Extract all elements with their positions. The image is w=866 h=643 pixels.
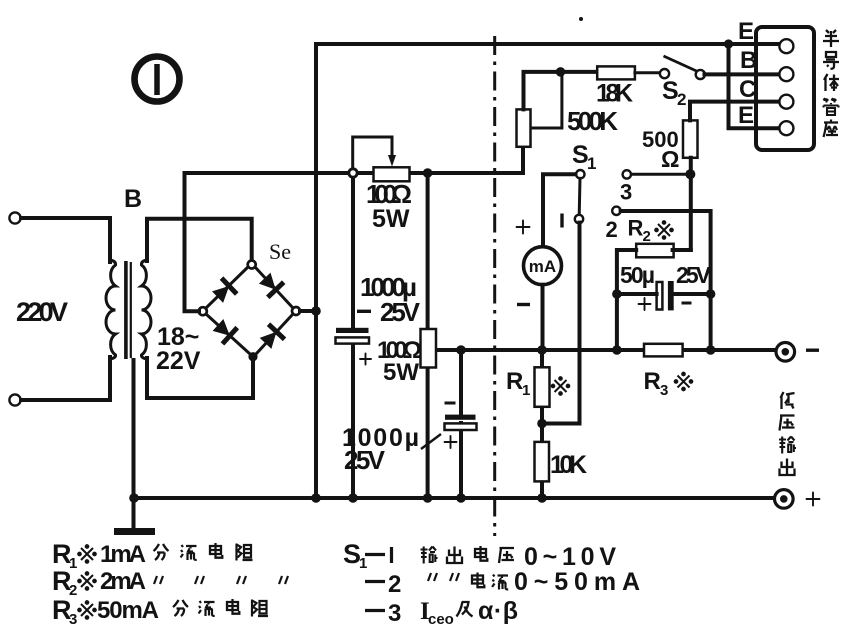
diode D2 top-right arm [257, 271, 284, 298]
potentiometer 100ohm 5W vertical [421, 329, 437, 368]
junction ground / bottom rail [129, 493, 139, 503]
output terminal minus [776, 343, 795, 362]
switch S1 common contact [576, 170, 584, 178]
socket wire E loop [729, 44, 780, 128]
junction cap50 right [706, 289, 716, 299]
label S2 [662, 77, 686, 109]
label 100ohm 5W lower [377, 337, 422, 386]
label C2 minus [445, 402, 456, 405]
rheostat wiper arm [353, 137, 392, 169]
resistor R3 [644, 344, 683, 357]
wire primary bottom [21, 357, 110, 400]
label output minus [806, 349, 819, 352]
wire cap50 left [617, 292, 657, 296]
svg-text:1: 1 [359, 555, 367, 572]
label R1 [506, 368, 530, 399]
divider dash-dot line [493, 36, 496, 536]
junction rheostat right [423, 168, 433, 178]
svg-text:2: 2 [677, 90, 686, 109]
wire bridge left vertex to negative bus [185, 173, 200, 311]
junction meter minus rail [537, 345, 547, 355]
wire contact1 down to R1 bottom [542, 223, 580, 424]
wire negative bus y173 [185, 147, 524, 173]
legend R1 line [52, 539, 253, 572]
switch S1 contact 1 [575, 215, 583, 223]
transformer core [126, 261, 131, 359]
svg-text:1mA: 1mA [100, 541, 146, 568]
svg-text:3: 3 [388, 600, 401, 627]
bridge top vertex node [248, 261, 256, 269]
diode D1 top-left arm [210, 278, 237, 305]
switch S2 lever [664, 56, 697, 71]
socket terminal C [779, 95, 793, 109]
svg-text:5W: 5W [372, 205, 410, 233]
label cap50 minus [682, 302, 692, 305]
transformer B secondary winding [141, 260, 151, 359]
junction cap50 left [612, 289, 622, 299]
svg-text:Se: Se [269, 239, 291, 264]
socket box [756, 27, 814, 150]
wire cap50 right [674, 292, 711, 296]
wiper arrowhead [388, 155, 396, 167]
svg-text:B: B [740, 47, 757, 74]
svg-text:2: 2 [643, 228, 651, 245]
resistor 10K [535, 442, 550, 482]
wire S2 to socket B [705, 72, 780, 76]
resistor R2 [636, 244, 673, 257]
switch S2 right contact [696, 70, 705, 79]
rheostat R 100ohm 5W horizontal [374, 167, 410, 181]
label C1 minus 25V [357, 297, 421, 327]
bridge right vertex node [292, 307, 300, 315]
junction R1 bottom [537, 419, 547, 429]
resistor 18K [597, 66, 635, 79]
input terminal bottom-left [9, 394, 20, 405]
junction R2 left minus rail [612, 345, 622, 355]
figure number 1 (circled) [135, 57, 180, 102]
wire secondary top to bridge [147, 219, 252, 261]
wiper of potentiometer to output [437, 348, 775, 352]
wire meter to minus rail [541, 285, 545, 350]
label meter minus [517, 303, 530, 306]
svg-text:50mA: 50mA [97, 597, 159, 624]
svg-text:1: 1 [522, 382, 530, 399]
diode D3 bottom-left arm [211, 317, 238, 344]
junction 500K wiper node [556, 67, 566, 77]
wire 18K to S2 [635, 71, 661, 74]
svg-text:50µ: 50µ [620, 262, 655, 288]
svg-text:220V: 220V [16, 297, 68, 327]
legend S1 position 1 line [343, 539, 616, 572]
wiper 500K [532, 72, 562, 128]
switch S1 contact 2 [612, 207, 620, 215]
wire R2 right [673, 248, 691, 252]
junction x428 bottom rail [423, 493, 433, 503]
svg-text:2: 2 [606, 217, 618, 242]
wire filter cap column x353 lower [351, 343, 355, 498]
wire top rail [316, 42, 779, 46]
wire secondary bottom to bridge [147, 358, 253, 398]
bridge bottom vertex junction [248, 352, 257, 361]
svg-text:500K: 500K [567, 106, 618, 136]
legend R2 line [52, 566, 288, 599]
label 100ohm 5W upper [366, 179, 412, 233]
wire bottom plus rail [134, 496, 774, 500]
capacitor C2 1000u 25V plates [445, 415, 477, 430]
bridge left vertex node [199, 307, 207, 315]
junction 10K bottom rail [537, 493, 547, 503]
output terminal plus [775, 490, 794, 509]
label R3 [644, 368, 669, 399]
svg-text:3: 3 [69, 611, 77, 628]
legend R3 line [52, 595, 268, 628]
refmark R3 [675, 373, 693, 391]
svg-text:2: 2 [388, 571, 401, 598]
label S1 [572, 141, 596, 173]
switch S2 left contact [660, 69, 669, 78]
legend S1 position 2 line [365, 568, 640, 598]
wire 500ohm bottom to node3 [689, 158, 693, 250]
junction C2 bottom rail [456, 493, 466, 503]
junction bridge plus [311, 306, 321, 316]
svg-text:ceo: ceo [428, 611, 454, 628]
refmark R1 [552, 377, 570, 395]
svg-text:2mA: 2mA [100, 568, 146, 595]
node rheostat left [349, 169, 357, 177]
wire potentiometer column x428 [426, 173, 430, 498]
junction R3 right minus rail [706, 345, 716, 355]
switch S1 contact 3 [623, 170, 631, 178]
label socket (semiconductor socket, vertical) [823, 30, 839, 137]
wire R2 left [617, 250, 636, 350]
resistor R1 [535, 367, 550, 407]
capacitor C1 1000u 25V plates [336, 328, 370, 344]
label 18~ 22V [156, 323, 201, 375]
wire C2 column upper [459, 350, 463, 415]
ground [114, 528, 155, 535]
svg-text:10K: 10K [550, 451, 587, 479]
svg-text:Ω: Ω [661, 146, 679, 172]
wire filter cap column x353 upper [351, 173, 355, 327]
label cap50 plus [639, 298, 651, 310]
wire 500K top to node [524, 72, 598, 110]
svg-text:R: R [644, 368, 661, 395]
input terminal top-left [9, 212, 20, 223]
svg-text:5W: 5W [383, 359, 419, 386]
wire 500ohm top to socket C [690, 102, 779, 121]
label C2 plus [445, 436, 457, 448]
junction x353 bottom rail [348, 493, 358, 503]
switch S1 arm to contact 1 [578, 178, 582, 215]
svg-text:E: E [738, 18, 754, 45]
label R2 [628, 216, 651, 246]
svg-text:C: C [739, 76, 756, 103]
socket terminal E1 [779, 39, 793, 53]
legend S1 position 3 line [365, 597, 518, 628]
svg-text:3: 3 [620, 180, 632, 205]
wire S1 common to meter [543, 174, 575, 247]
socket terminal E2 [779, 121, 793, 135]
wire contact2 down right column [621, 211, 711, 294]
refmark R2 [655, 221, 673, 239]
svg-text:α·β: α·β [478, 597, 518, 625]
wire R1/10K column [540, 350, 544, 498]
wire core to ground [132, 360, 136, 528]
svg-text:3: 3 [660, 382, 668, 399]
wire primary top [21, 218, 110, 262]
stray ink dot [579, 17, 583, 21]
svg-text:25V: 25V [344, 445, 386, 475]
svg-text:1: 1 [587, 154, 596, 173]
svg-text:18K: 18K [596, 80, 633, 108]
svg-text:0~10V: 0~10V [524, 543, 616, 571]
junction node 3 [685, 169, 695, 179]
meter mA [524, 247, 562, 285]
svg-text:mA: mA [529, 257, 556, 276]
svg-text:0~50mA: 0~50mA [514, 568, 640, 596]
label 1 [560, 214, 563, 228]
label low-voltage output (vertical) [779, 392, 796, 475]
bridge rectifier Se arms [206, 266, 293, 354]
capacitor 50u 25V plates [657, 281, 674, 310]
junction x316 bottom rail [311, 493, 321, 503]
resistor 500K [517, 109, 531, 146]
junction wiper/C2 [456, 345, 466, 355]
transformer B primary winding [106, 260, 116, 359]
label meter plus [517, 221, 530, 234]
svg-text:22V: 22V [156, 347, 201, 375]
label C2 1000u 25V with slash [342, 424, 441, 475]
svg-text:25V: 25V [380, 297, 421, 327]
resistor 500ohm [683, 120, 698, 157]
svg-text:B: B [124, 185, 142, 213]
svg-text:R: R [506, 368, 523, 395]
socket terminal B [779, 67, 793, 81]
label output plus [807, 493, 820, 506]
svg-text:E: E [738, 102, 754, 129]
label 500 ohm [642, 127, 679, 172]
svg-text:R: R [628, 216, 644, 241]
wire plus column x316 top rail to bottom rail [314, 44, 318, 498]
wire bridge right vertex to plus column [300, 309, 316, 313]
svg-text:25V: 25V [676, 262, 712, 288]
label C1 plus [360, 354, 371, 365]
junction E wire [724, 39, 733, 48]
wire cap50 right column to minus rail [709, 294, 713, 350]
diode D4 bottom-right arm [258, 324, 285, 351]
wire C2 column lower [459, 423, 463, 498]
wire contact3 to node3 [631, 173, 686, 176]
